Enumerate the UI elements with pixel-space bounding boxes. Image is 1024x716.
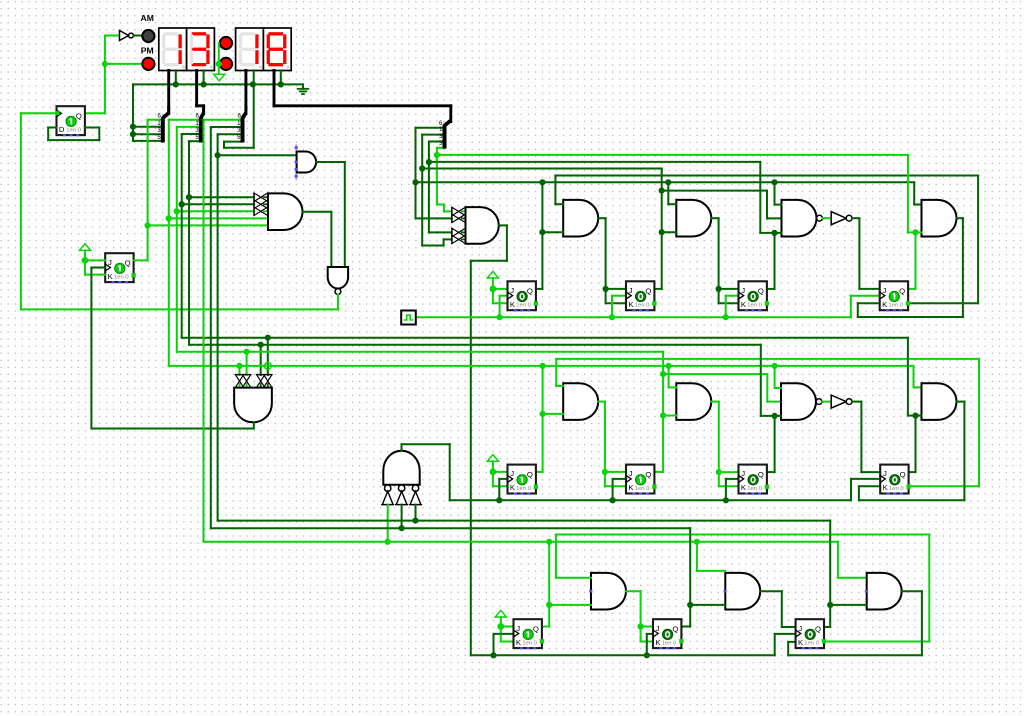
svg-text:Q: Q	[527, 287, 533, 296]
splitter S2	[195, 106, 203, 143]
wire FF1.2 clock	[612, 296, 626, 318]
wire G3.2 out to FF3.3 J	[760, 591, 795, 627]
wire FF2.1 clock	[499, 479, 507, 500]
AND gate V2 (3-in facing up, inverted inputs)	[381, 451, 422, 505]
NAND gate N1 (facing down)	[328, 267, 348, 294]
flip-flop FF1.4 (JK)	[880, 281, 911, 311]
wire A-S out to NAND in2	[316, 162, 345, 267]
wire row2 clock line	[450, 497, 851, 503]
wire FF2.4 clock	[851, 479, 880, 500]
svg-text:1en 0: 1en 0	[516, 486, 531, 492]
wire U2 Qbar to D loop	[48, 128, 99, 141]
wire DS2 data pin (bus)	[197, 70, 204, 113]
wire G2.3 out to NOT2	[822, 401, 831, 403]
wire G1.2 in2 / FF1.2 Q	[655, 169, 676, 289]
NAND gate G2.3	[781, 383, 822, 420]
AND gate G3.1	[589, 573, 626, 610]
wire G2.2 in1	[669, 366, 677, 388]
wire gnd-bits to S1	[130, 84, 163, 140]
wire G1.1 out to FF1.2 J/K	[598, 218, 626, 303]
wire G2.4 out to FF2.4 K	[859, 402, 965, 501]
wire G1.1 in1	[555, 203, 563, 205]
wire S4 bit3 row	[437, 147, 445, 149]
svg-text:J: J	[741, 286, 745, 295]
svg-text:Q: Q	[645, 470, 651, 479]
wire AND5L in5 from U3 Q	[148, 224, 268, 226]
AND gate G2.4	[922, 383, 957, 420]
wire AND-V2 output to row2 clock net	[402, 444, 450, 500]
wire S2 bit3 row	[189, 140, 201, 142]
wire AND5L in3 from S2 bit1	[174, 208, 254, 214]
wire row3 Qbar3 line	[556, 535, 929, 642]
LED colon lower	[220, 58, 232, 70]
NAND gate G1.3	[782, 200, 823, 237]
wire colon LEDs to power	[216, 43, 222, 74]
svg-text:Q: Q	[758, 287, 764, 296]
svg-text:Q: Q	[815, 624, 821, 633]
wire G3.2 in1	[697, 542, 725, 571]
marker ring crossing	[264, 363, 271, 370]
wire S3 bit0 row	[204, 119, 243, 121]
wire D-FF Q to inverter and PM LED (net DQ)	[85, 36, 142, 114]
wire S1 bit0 (JK-H Q net)	[148, 119, 163, 121]
wire P1 to U3 J and K	[82, 257, 106, 275]
wire G1.4 in2 / FF1.4 Q	[908, 155, 922, 289]
wire DS4 data pin (bus to splitter S4)	[274, 70, 451, 121]
wire G2.2 in2 / FF2.2 Q	[655, 352, 676, 472]
svg-text:K: K	[655, 638, 661, 647]
wire row2 Qbar4 line	[556, 359, 979, 486]
svg-text:1en 0: 1en 0	[888, 303, 903, 309]
svg-text:Q: Q	[900, 470, 906, 479]
svg-text:J: J	[510, 286, 514, 295]
svg-text:D: D	[59, 125, 65, 134]
wire AND-V1 in3	[258, 342, 264, 375]
wire G1.2 in1	[668, 182, 676, 204]
wire AND5L in2 from S2 bit2	[179, 201, 254, 207]
svg-text:Q: Q	[758, 470, 764, 479]
wire row2 Q3 line	[186, 141, 761, 345]
svg-text:J: J	[741, 469, 745, 478]
svg-text:K: K	[741, 483, 747, 492]
flip-flop FF2.3 (JK)	[739, 465, 770, 495]
wire FF1.4 clock	[851, 296, 880, 318]
svg-text:Q: Q	[645, 287, 651, 296]
wire G3.1 in2 / FF3.1 Q	[542, 542, 591, 627]
svg-text:Q: Q	[125, 258, 131, 267]
svg-text:K: K	[628, 483, 634, 492]
AND gate A-S (5-in medium)	[295, 144, 317, 180]
wire row2 Q2 line	[174, 127, 663, 352]
flip-flop FF2.4 (JK)	[880, 465, 911, 495]
wire row1 Qbar4 line	[555, 176, 978, 304]
svg-text:K: K	[108, 272, 114, 281]
flip-flop U3 (JK, hours-tens)	[105, 253, 136, 283]
wire NOT1 out to FF1.4 J	[852, 218, 880, 289]
wire AND-V1 in2	[244, 349, 250, 375]
svg-text:1en 0: 1en 0	[662, 640, 677, 646]
wire row1 Q2 branch (y190.6)	[659, 188, 782, 219]
AND gate G2.1	[563, 383, 598, 420]
wire DS3 data pin (bus)	[244, 70, 247, 113]
svg-text:PM: PM	[141, 46, 154, 56]
svg-text:J: J	[629, 469, 633, 478]
svg-text:J: J	[108, 258, 112, 267]
wire AND5L in4 from S2 bit0	[166, 215, 268, 221]
wire G2.1 in2 / FF2.1 Q	[536, 366, 563, 472]
wire U3 clock from AND-V1 output	[91, 268, 253, 429]
wire common bus displays (gnd net)	[133, 70, 303, 88]
wire S4 bit3 vert to G0 in1	[434, 148, 452, 212]
wire AND-V2 in3	[412, 505, 418, 524]
AND gate V1 (5-in facing down, negated)	[234, 375, 272, 423]
AND gate G3.3	[865, 573, 902, 610]
svg-text:J: J	[516, 624, 520, 633]
AND gate G0 (5-in negated, row1 carry)	[452, 207, 499, 244]
inverter U1 (AM driver)	[120, 31, 134, 41]
wire P3 to FF2.1 J/K	[490, 469, 508, 487]
svg-text:1en 0: 1en 0	[747, 303, 762, 309]
wire AND-V1 in1 from minutes-Q1 line	[236, 363, 242, 375]
svg-text:1en 0: 1en 0	[516, 303, 531, 309]
wire S2 bit0 row	[169, 119, 201, 121]
wire AND5L in1 from S2 bit3	[186, 194, 254, 200]
wire row2 Q4 line	[179, 134, 908, 338]
svg-text:Q: Q	[527, 470, 533, 479]
svg-text:Q: Q	[533, 624, 539, 633]
NOT gate NOT2	[831, 395, 852, 408]
svg-text:K: K	[628, 300, 634, 309]
wire row1 Q1 line	[416, 179, 922, 204]
wire clock line row1	[416, 314, 851, 320]
svg-text:J: J	[883, 286, 887, 295]
power symbol P4	[495, 610, 506, 626]
wire G3.3 out to FF3.3 K	[788, 591, 922, 655]
wire G1.2 out to FF1.3 J/K	[711, 218, 738, 303]
AND gate A5L (5-in, 3 negated)	[254, 193, 303, 230]
svg-text:K: K	[741, 300, 747, 309]
wire G2.2 out to FF2.3 J/K	[711, 402, 738, 487]
svg-text:1en 0: 1en 0	[635, 303, 650, 309]
wire row3 Q2 line	[211, 127, 690, 528]
svg-text:J: J	[798, 624, 802, 633]
label PM	[141, 46, 154, 56]
svg-text:K: K	[883, 483, 889, 492]
wire S3 bit2 row	[218, 133, 243, 135]
wire G3.1 in1	[556, 577, 591, 579]
svg-text:Q: Q	[672, 624, 678, 633]
svg-text:1en 0: 1en 0	[635, 486, 650, 492]
flip-flop FF1.1 (JK)	[508, 281, 539, 311]
wire S3 bit1 row	[211, 126, 243, 128]
wire G2.1 in1	[556, 385, 563, 387]
svg-text:K: K	[510, 300, 516, 309]
7-segment display DS1 (digit 1)	[159, 28, 187, 71]
wire inverter out to AM LED	[133, 35, 142, 37]
svg-text:J: J	[883, 469, 887, 478]
svg-text:K: K	[510, 483, 516, 492]
wire G1.1 in2 from FF1.1 Q	[536, 182, 563, 289]
wire G1.4 out to FF1.4 K	[858, 218, 963, 317]
svg-text:1en 0: 1en 0	[66, 127, 81, 133]
LED PM (on)	[142, 58, 154, 70]
flip-flop FF2.2 (JK)	[626, 465, 657, 495]
NOT gate NOT1	[831, 212, 852, 225]
wire G2.1 out to FF2.2 J/K	[598, 402, 626, 487]
wire G3.1 out to FF3.2 J/K	[626, 591, 653, 641]
wire AND-V2 in2	[399, 505, 405, 532]
wire S4 bit0 vert to G0 in2	[412, 128, 451, 219]
flip-flop FF1.3 (JK)	[739, 281, 770, 311]
splitter S3	[237, 106, 246, 143]
wire A5L out to NAND in1	[303, 212, 332, 267]
wire G1.3 in1	[775, 182, 782, 204]
wire row3 Q1 line	[204, 120, 867, 578]
wire DS1 data pin (bus)	[167, 70, 170, 113]
wire FF1.1 clock	[500, 296, 508, 318]
wire G1.3 in3 / FF1.3 Q	[760, 162, 781, 289]
svg-text:K: K	[516, 638, 522, 647]
wire FF3.3 clock	[775, 634, 796, 655]
flip-flop FF3.3 (JK)	[796, 619, 827, 649]
svg-text:1en 0: 1en 0	[522, 640, 537, 646]
svg-text:1en 0: 1en 0	[114, 274, 129, 280]
wire S4 bit1 row	[422, 134, 444, 136]
svg-text:J: J	[510, 469, 514, 478]
wire FF3.2 clock	[647, 634, 653, 655]
7-segment display DS3 (digit 1)	[236, 28, 264, 71]
wire row2 Q2 branch (y374.1)	[660, 371, 781, 402]
flip-flop FF1.2 (JK)	[626, 281, 657, 311]
AND gate G1.1	[563, 200, 598, 237]
power symbol P1	[79, 244, 90, 261]
LED colon upper	[220, 37, 232, 49]
pin U2 clock	[55, 111, 59, 115]
wire S3 bit3 loop to DS3 common	[224, 70, 254, 147]
svg-text:1en 0: 1en 0	[804, 640, 819, 646]
wire row2 Q1 line	[166, 120, 922, 388]
clock source CLK1	[401, 311, 416, 325]
svg-text:K: K	[798, 638, 804, 647]
wire row3 Q3 line	[218, 134, 831, 520]
AND gate G1.2	[676, 200, 711, 237]
wire AND-V1 in4	[265, 335, 271, 375]
wire N1 out to net NANDout	[337, 294, 339, 309]
wire G2.4 in2 / FF2.4 Q	[908, 338, 922, 472]
wire row1 Q3 line	[429, 161, 760, 163]
wire FF2.2 clock	[613, 479, 626, 500]
wire row1 Q4 line	[437, 154, 908, 156]
wire S4 bit2 vert to G0 in4	[426, 142, 452, 233]
wire AND-V2 in1	[385, 505, 391, 545]
wire G2.3 in1	[775, 366, 781, 388]
wire G3.3 in2 / FF3.3 Q	[824, 521, 867, 627]
wire S3 bit2 to AND-S in2	[215, 152, 297, 158]
flip-flop U2 (D, AM/PM)	[57, 106, 85, 136]
wire row3 clock junctions	[490, 652, 650, 658]
wire U3 Q to S1 bit0 / AND5L in5	[134, 120, 151, 261]
wire U2 clock from NAND (net NANDout)	[21, 113, 338, 309]
wire G3.2 in2 / FF3.2 Q	[681, 528, 725, 626]
wire AND-V1 output to U3 clock net	[253, 422, 255, 428]
power symbol P3	[487, 455, 498, 472]
wire P2 to FF1.1 J/K	[490, 286, 508, 304]
power symbol colon (facing down)	[214, 74, 225, 81]
splitter S1	[157, 106, 168, 143]
ground symbol G1	[297, 89, 309, 94]
wire NOT2 out to FF2.4 J	[852, 402, 880, 473]
svg-text:1en 0: 1en 0	[747, 486, 762, 492]
svg-text:K: K	[882, 300, 888, 309]
wire S2 bit1 row	[177, 126, 201, 128]
AND gate G3.2	[724, 573, 761, 610]
wire S4 bit2 row	[429, 141, 445, 143]
7-segment display DS2 (digit 3)	[187, 28, 215, 71]
wire FF1.3 clock	[726, 296, 739, 318]
wire row1 Q2 line	[422, 168, 662, 170]
wire G1.3 out to NOT1	[822, 217, 831, 219]
wire FF3.1 clock	[494, 634, 514, 655]
AND gate G2.2	[676, 383, 711, 420]
AND gate G1.4	[922, 200, 957, 237]
svg-text:Q: Q	[76, 111, 82, 120]
svg-text:J: J	[629, 286, 633, 295]
flip-flop FF2.1 (JK)	[508, 465, 539, 495]
LED AM (off)	[142, 30, 154, 42]
svg-text:1en 0: 1en 0	[889, 486, 904, 492]
svg-text:Q: Q	[899, 287, 905, 296]
flip-flop FF3.1 (JK)	[514, 619, 545, 649]
wire P4 to FF3.1 J/K	[497, 623, 513, 641]
wire S2 bit2 row	[182, 133, 201, 135]
flip-flop FF3.2 (JK)	[653, 619, 684, 649]
splitter S4	[439, 121, 451, 149]
svg-text:AM: AM	[141, 13, 154, 23]
wire G0 output to row3 clock chain	[471, 225, 775, 655]
7-segment display DS4 (digit 8)	[263, 28, 291, 71]
label AM	[141, 13, 154, 23]
wire G2.3 in3 / FF2.3 Q	[761, 345, 781, 472]
wire FF2.3 clock	[726, 479, 739, 500]
svg-text:J: J	[656, 624, 660, 633]
power symbol P2	[487, 271, 498, 289]
wire S4 bit1 vert to G0 in5	[419, 135, 452, 246]
wire S4 bit0 row	[416, 127, 445, 129]
